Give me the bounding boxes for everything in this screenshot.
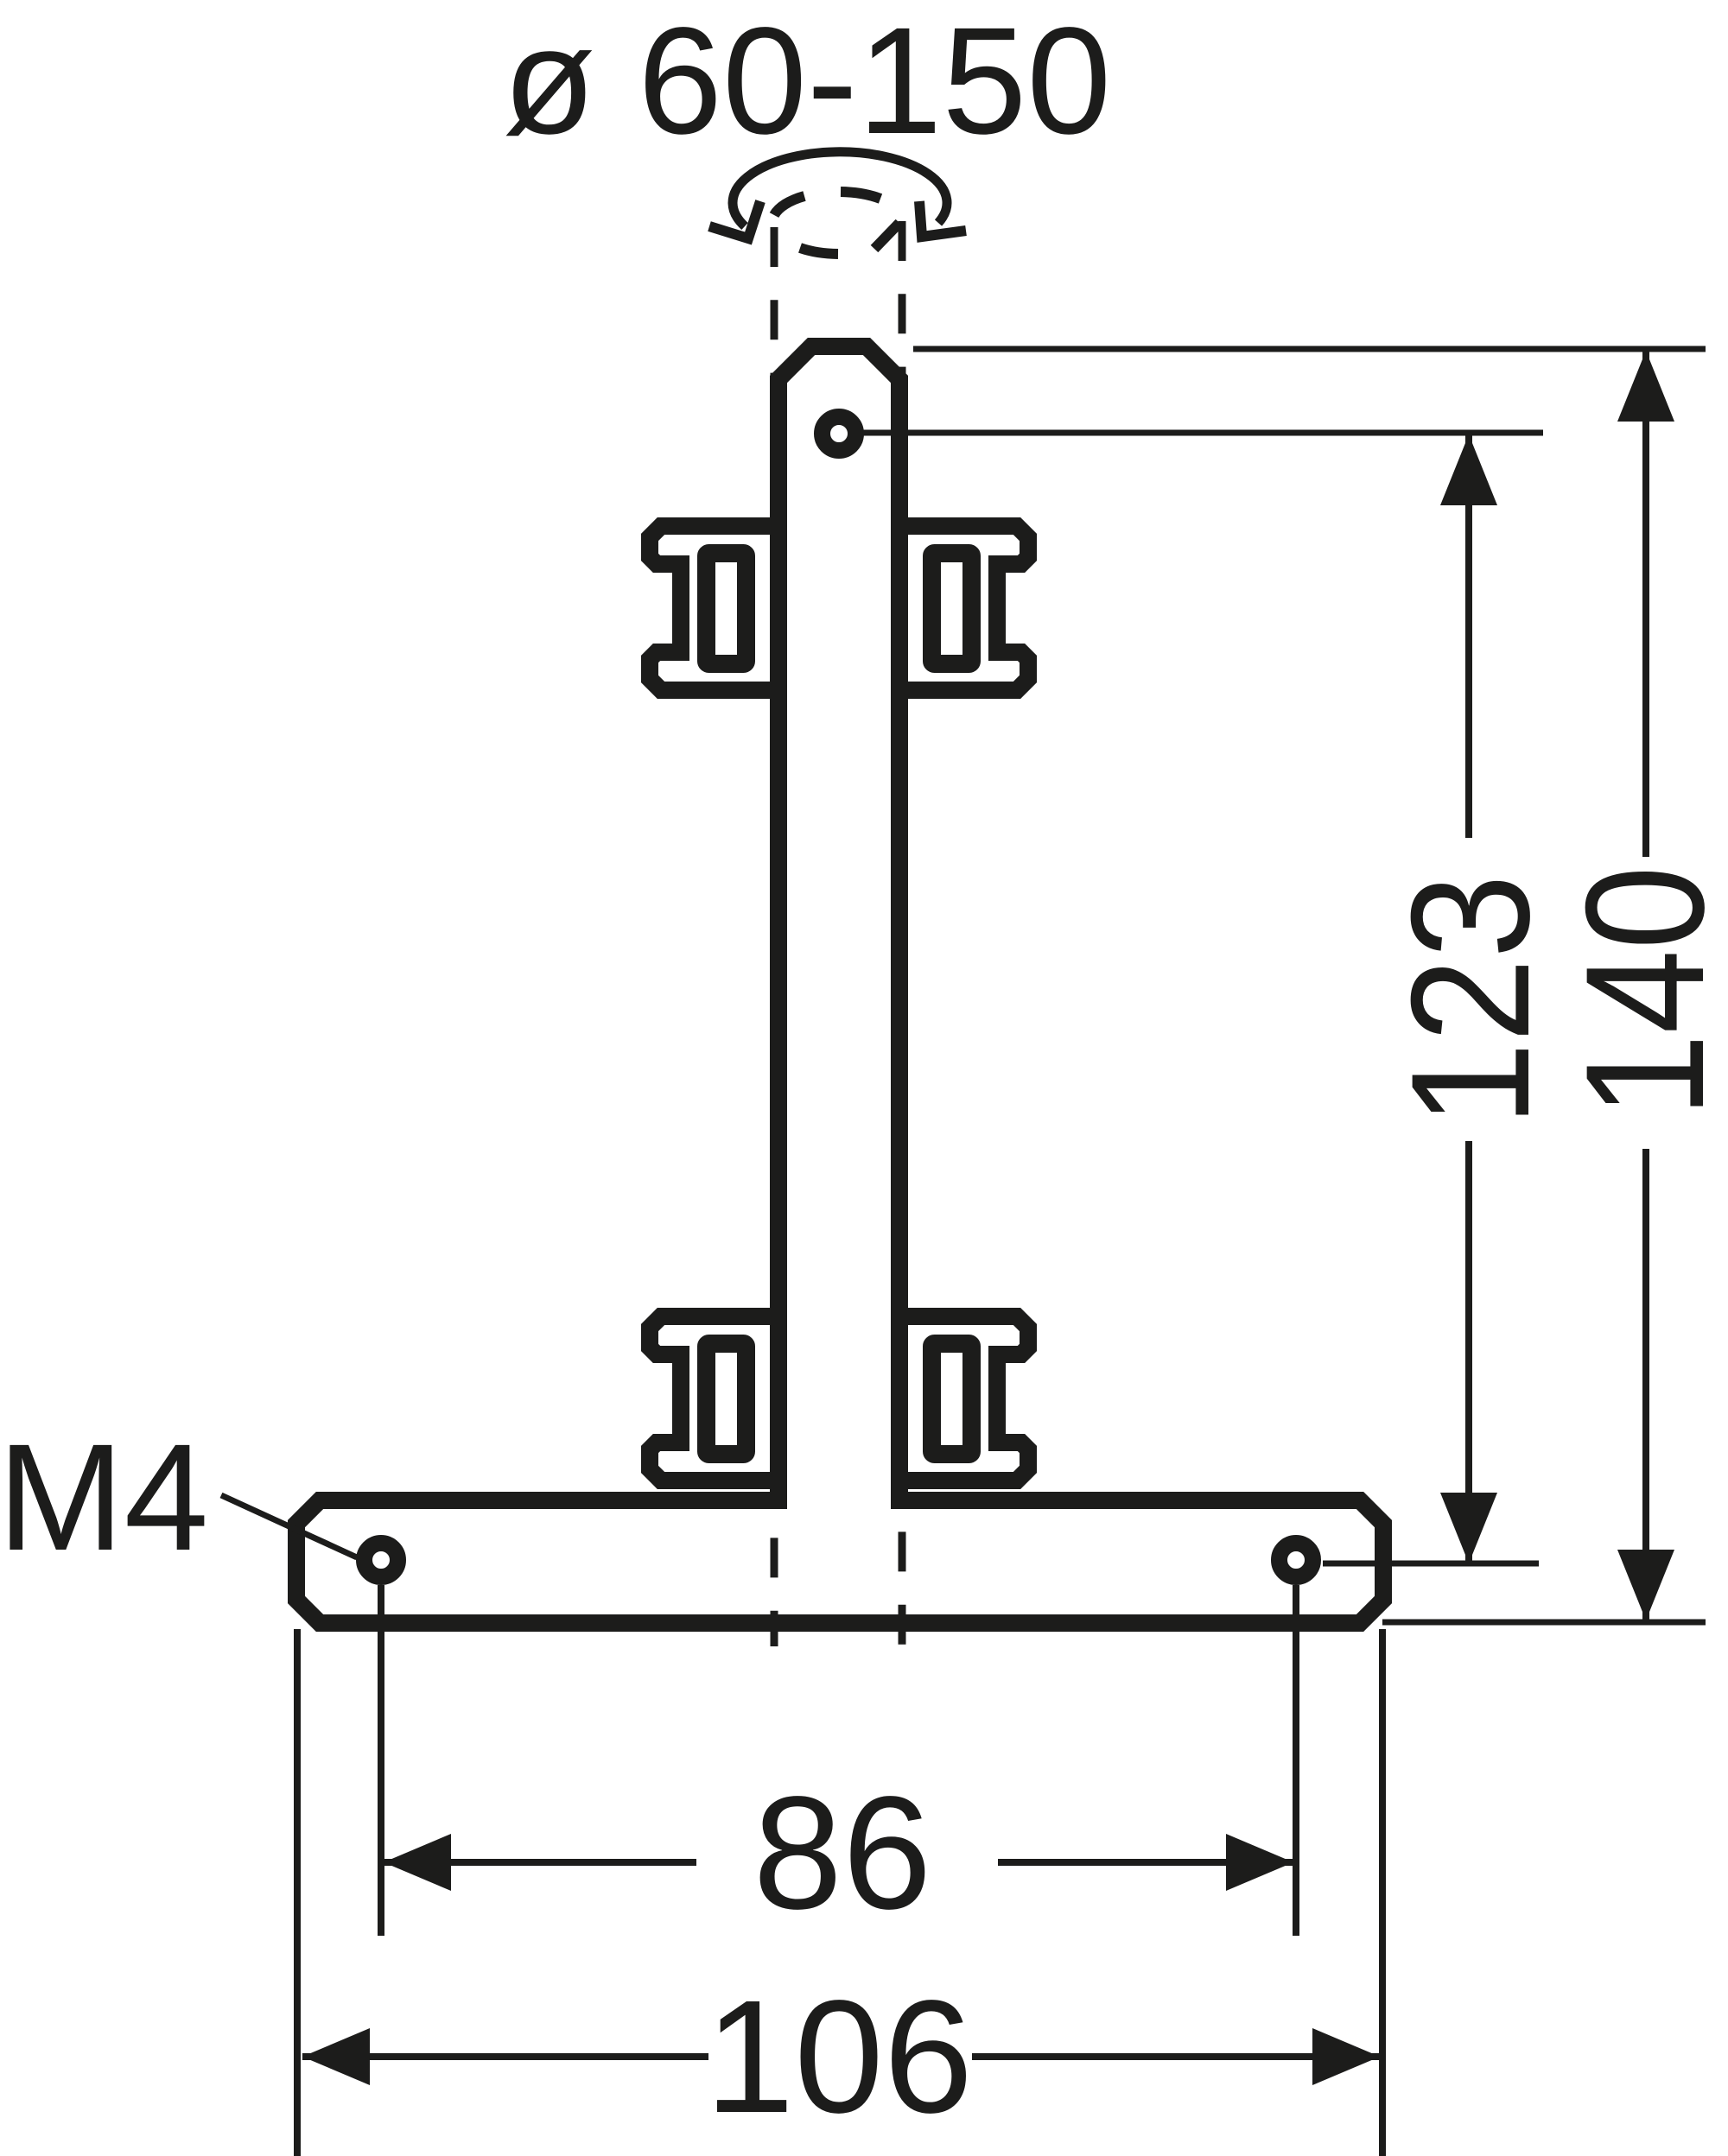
dimension 140 top arrow xyxy=(1617,351,1674,422)
extension line below bar left end xyxy=(294,1629,301,2156)
lower right clamp profile xyxy=(908,1316,1028,1481)
extension line below left hole xyxy=(378,1585,384,1936)
extension line from right hole (123 bottom) xyxy=(1323,1561,1539,1567)
bottom bar outline xyxy=(296,1500,1383,1623)
extension line below right hole xyxy=(1293,1585,1299,1936)
dimension 86 left arrow xyxy=(384,1834,451,1891)
dimension 86 line right xyxy=(998,1859,1293,1866)
extension line from top hole xyxy=(860,430,1543,436)
rotation symbol outer arc xyxy=(733,152,947,226)
rotation symbol inner dash top xyxy=(841,192,880,199)
svg-text:123: 123 xyxy=(1376,874,1565,1126)
dimension 86 line left xyxy=(384,1859,696,1866)
upper right clamp profile xyxy=(908,526,1028,690)
dimension 140 bottom arrow xyxy=(1617,1550,1674,1620)
upper left clamp profile xyxy=(650,526,770,690)
dimension 106 line left xyxy=(302,2053,708,2060)
svg-text:86: 86 xyxy=(753,1764,932,1943)
lower left clamp profile xyxy=(650,1316,770,1481)
upper left clamp slot xyxy=(707,554,746,664)
rotation symbol inner dash upper-left xyxy=(774,196,804,215)
rotation symbol inner dash bottom xyxy=(800,248,838,254)
rotation symbol inner arrow leg xyxy=(874,223,899,249)
rotation symbol right arrowhead xyxy=(919,201,966,237)
extension line from bar top xyxy=(913,346,1706,352)
dimension 140 line lower xyxy=(1642,1149,1649,1620)
vertical bar outline xyxy=(778,346,899,1509)
bottom right hole xyxy=(1280,1544,1313,1577)
dimension 106 right arrow xyxy=(1312,2028,1380,2085)
svg-text:140: 140 xyxy=(1551,866,1728,1118)
dimension 123 top arrow xyxy=(1440,434,1497,505)
lower left clamp slot xyxy=(707,1344,746,1455)
dimension 123 bottom arrow xyxy=(1440,1493,1497,1563)
dimension 86 right arrow xyxy=(1226,1834,1293,1891)
dimension 106 line right xyxy=(972,2053,1380,2060)
top hole xyxy=(823,417,856,451)
extension line below bar right end xyxy=(1379,1629,1386,2156)
svg-text:106: 106 xyxy=(705,1968,973,2146)
dashed pole line right xyxy=(899,221,906,1646)
dimension 123 line lower xyxy=(1465,1141,1472,1563)
dashed pole line left xyxy=(771,227,778,1646)
lower right clamp slot xyxy=(932,1344,972,1455)
dimension 106 left arrow xyxy=(302,2028,370,2085)
rotation symbol left arrowhead xyxy=(709,201,760,238)
M4 leader line xyxy=(221,1495,357,1557)
svg-text:ø 60-150: ø 60-150 xyxy=(503,0,1111,166)
svg-text:M4: M4 xyxy=(0,1413,209,1582)
dimension 123 line upper xyxy=(1465,434,1472,838)
bottom left hole xyxy=(365,1544,398,1577)
dimension 140 line upper xyxy=(1642,351,1649,857)
upper right clamp slot xyxy=(932,554,972,664)
extension line bottom bar bottom (140) xyxy=(1382,1620,1706,1626)
